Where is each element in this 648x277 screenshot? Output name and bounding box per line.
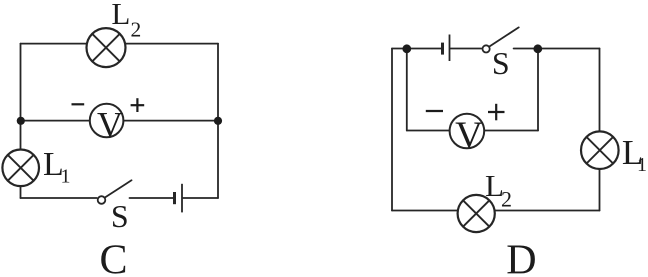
svg-text:2: 2 [501, 187, 512, 212]
svg-text:L: L [111, 0, 130, 31]
svg-text:S: S [492, 45, 510, 81]
svg-text:C: C [100, 237, 128, 277]
svg-text:D: D [506, 238, 536, 277]
svg-text:V: V [455, 115, 483, 157]
svg-text:1: 1 [637, 154, 647, 176]
svg-text:1: 1 [61, 166, 71, 188]
svg-text:V: V [97, 104, 123, 144]
svg-text:S: S [111, 198, 129, 234]
svg-text:2: 2 [131, 17, 142, 41]
